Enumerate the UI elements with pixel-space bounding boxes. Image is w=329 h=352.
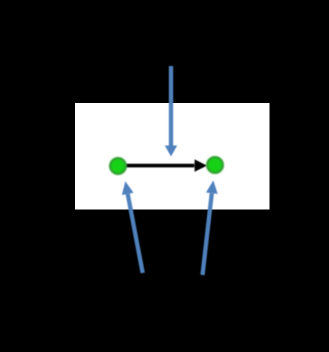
blue arrow (top, pointing down) [165,66,177,157]
green node (right) [207,157,223,173]
blue arrow (bottom-right, pointing up at right node) [203,181,218,276]
green node (left) [110,158,126,174]
white panel [75,103,270,210]
black arrow (left node to right node) [126,159,207,171]
blue arrow (bottom-left, pointing up at left node) [122,181,143,273]
